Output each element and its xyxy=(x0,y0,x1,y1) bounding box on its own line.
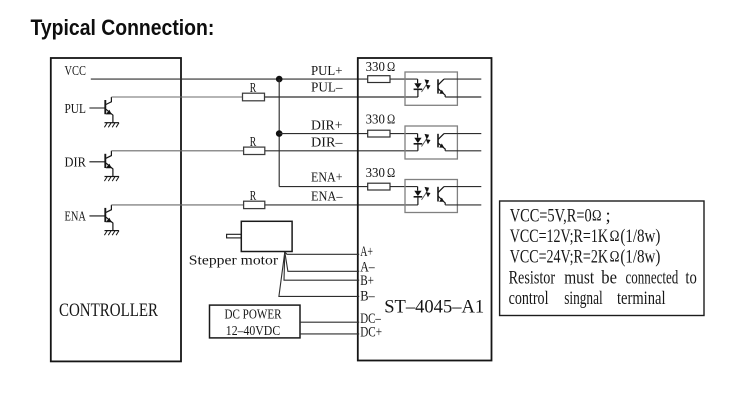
note box xyxy=(500,201,704,316)
wire U3 collector output xyxy=(444,186,481,188)
svg-text:singnal: singnal xyxy=(564,288,603,309)
svg-text:Ω: Ω xyxy=(610,248,620,265)
controller box xyxy=(51,58,181,361)
label net PUL- xyxy=(311,81,343,96)
label 12-40VDC xyxy=(226,324,280,339)
note text line 1: VCC=5V,R=0 ohm ; xyxy=(510,207,611,227)
label terminal A+ xyxy=(360,244,373,260)
ground GND1 xyxy=(104,123,119,128)
svg-text:control: control xyxy=(509,288,549,309)
svg-text:connected: connected xyxy=(626,268,679,289)
label R1 xyxy=(250,80,256,95)
wire U2 collector output xyxy=(444,133,481,135)
transistor Q2 (DIR input) xyxy=(89,151,113,177)
svg-text:VCC=24V;R=2K: VCC=24V;R=2K xyxy=(510,248,609,268)
svg-text:DC+: DC+ xyxy=(360,325,382,341)
wire U1 emitter output xyxy=(445,96,481,98)
label DIR xyxy=(65,156,87,171)
resistor R3 xyxy=(244,201,265,208)
label R2 xyxy=(250,134,256,149)
svg-text:CONTROLLER: CONTROLLER xyxy=(59,300,158,321)
svg-text:Ω: Ω xyxy=(387,59,395,74)
resistor R6 330ohm xyxy=(368,183,390,190)
svg-text:must: must xyxy=(564,268,594,289)
svg-text:VCC=12V;R=1K: VCC=12V;R=1K xyxy=(510,227,609,247)
label CONTROLLER xyxy=(59,300,158,321)
svg-text:Ω: Ω xyxy=(387,165,395,180)
svg-text:VCC=5V,R=0: VCC=5V,R=0 xyxy=(510,207,592,227)
wire motor phase B- xyxy=(279,252,359,296)
stepper motor M1 xyxy=(227,221,293,251)
wire VCC to node A xyxy=(91,78,279,80)
svg-text:330: 330 xyxy=(366,165,386,180)
svg-text:B+: B+ xyxy=(360,273,374,289)
svg-text:Resistor: Resistor xyxy=(509,268,556,289)
svg-text:PUL–: PUL– xyxy=(311,81,343,96)
label R6 value 330 ohm xyxy=(366,165,396,180)
ground GND3 xyxy=(104,231,119,236)
svg-text:330: 330 xyxy=(366,112,386,127)
svg-text:A+: A+ xyxy=(360,244,373,260)
wire resistor R1 to optocoupler U1 cathode (PUL-) xyxy=(265,96,418,98)
label ENA xyxy=(65,210,87,225)
note text line 2: VCC=12V;R=1K ohm (1/8w) xyxy=(510,227,661,247)
label net DIR+ xyxy=(311,119,343,134)
label R5 value 330 ohm xyxy=(366,112,396,127)
resistor R1 xyxy=(243,93,265,101)
wire U2 emitter output xyxy=(445,150,481,152)
wire PS1 to terminal DC- xyxy=(300,321,359,323)
svg-text:(1/8w): (1/8w) xyxy=(620,248,660,268)
label R4 value 330 ohm xyxy=(366,59,396,74)
optocoupler U3 xyxy=(405,180,457,213)
wire U3 emitter output xyxy=(445,204,481,206)
transistor Q1 (PUL input) xyxy=(89,97,113,123)
svg-text:R: R xyxy=(250,188,256,203)
svg-text:DIR: DIR xyxy=(65,156,87,171)
svg-text:PUL+: PUL+ xyxy=(311,64,343,79)
label terminal DC+ xyxy=(360,325,382,341)
optocoupler U1 xyxy=(405,72,457,105)
label terminal DC- xyxy=(360,311,381,327)
optocoupler U2 xyxy=(405,126,457,159)
svg-text:Typical Connection:: Typical Connection: xyxy=(31,15,215,40)
svg-text:ST–4045–A1: ST–4045–A1 xyxy=(384,297,484,318)
wire resistor R4 to optocoupler U1 anode xyxy=(390,78,418,80)
label VCC xyxy=(65,64,86,79)
wire motor phase A+ xyxy=(285,252,359,254)
label net ENA- xyxy=(311,190,343,205)
svg-text:R: R xyxy=(250,134,256,149)
wire PS1 to terminal DC+ xyxy=(300,333,359,335)
resistor R2 xyxy=(244,147,265,154)
label R3 xyxy=(250,188,256,203)
wire resistor R2 to optocoupler U2 cathode (DIR-) xyxy=(265,150,418,152)
wire node B to resistor R5 (DIR+) xyxy=(279,133,368,135)
label PUL xyxy=(65,102,86,117)
wire resistor R3 to optocoupler U3 cathode (ENA-) xyxy=(265,204,418,206)
note text line 3: VCC=24V;R=2K ohm (1/8w) xyxy=(510,248,661,268)
svg-text:(1/8w): (1/8w) xyxy=(620,227,660,247)
wire U1 collector output xyxy=(444,78,481,80)
dc power supply PS1 xyxy=(210,305,301,338)
label Stepper motor xyxy=(189,254,279,269)
wire motor phase A- xyxy=(285,252,359,271)
svg-text:DIR+: DIR+ xyxy=(311,119,343,134)
wire Q2 collector to resistor R2 (DIR-) xyxy=(111,150,243,152)
wire VCC bus vertical xyxy=(278,79,280,187)
resistor R5 330ohm xyxy=(368,130,390,137)
label terminal B+ xyxy=(360,273,374,289)
svg-text:Ω: Ω xyxy=(610,228,620,245)
svg-text:ENA+: ENA+ xyxy=(311,171,343,186)
svg-text:ENA: ENA xyxy=(65,210,87,225)
svg-text:terminal: terminal xyxy=(617,288,666,309)
title "Typical Connection:" xyxy=(31,15,215,40)
svg-text:DC POWER: DC POWER xyxy=(225,308,283,323)
wire Q3 collector to resistor R3 (ENA-) xyxy=(111,204,243,206)
resistor R4 330ohm xyxy=(368,76,390,83)
svg-text:Ω: Ω xyxy=(387,112,395,127)
svg-text:VCC: VCC xyxy=(65,64,86,79)
wire bus elbow to resistor R6 (ENA+) xyxy=(279,186,368,188)
svg-text:DIR–: DIR– xyxy=(311,136,343,151)
label DC POWER xyxy=(225,308,283,323)
svg-text:;: ; xyxy=(606,207,611,227)
wire resistor R6 to optocoupler U3 anode xyxy=(390,186,418,188)
node A junction dot xyxy=(276,76,283,83)
label terminal B- xyxy=(360,289,375,305)
note text line 4: Resistor must be connected to xyxy=(509,268,697,289)
node B junction dot xyxy=(276,130,283,137)
svg-text:Ω: Ω xyxy=(592,207,602,224)
svg-text:B–: B– xyxy=(360,289,375,305)
wire resistor R5 to optocoupler U2 anode xyxy=(390,133,418,135)
svg-text:330: 330 xyxy=(366,59,386,74)
svg-text:12–40VDC: 12–40VDC xyxy=(226,324,280,339)
label terminal A- xyxy=(360,260,375,276)
svg-text:R: R xyxy=(250,80,256,95)
label net DIR- xyxy=(311,136,343,151)
transistor Q3 (ENA input) xyxy=(89,205,113,231)
svg-text:Stepper motor: Stepper motor xyxy=(189,254,279,269)
svg-text:to: to xyxy=(685,268,696,289)
label net ENA+ xyxy=(311,171,343,186)
wire Q1 collector to resistor R1 (PUL-) xyxy=(111,96,242,98)
label net PUL+ xyxy=(311,64,343,79)
wire motor phase B+ xyxy=(284,252,359,280)
driver box ST-4045-A1 xyxy=(358,58,492,361)
wire node A to resistor R4 (PUL+) xyxy=(279,78,368,80)
note text line 5: control singnal terminal xyxy=(509,288,666,309)
svg-text:ENA–: ENA– xyxy=(311,190,343,205)
ground GND2 xyxy=(104,177,119,182)
label ST-4045-A1 xyxy=(384,297,484,318)
svg-text:be: be xyxy=(601,268,617,289)
svg-text:PUL: PUL xyxy=(65,102,86,117)
